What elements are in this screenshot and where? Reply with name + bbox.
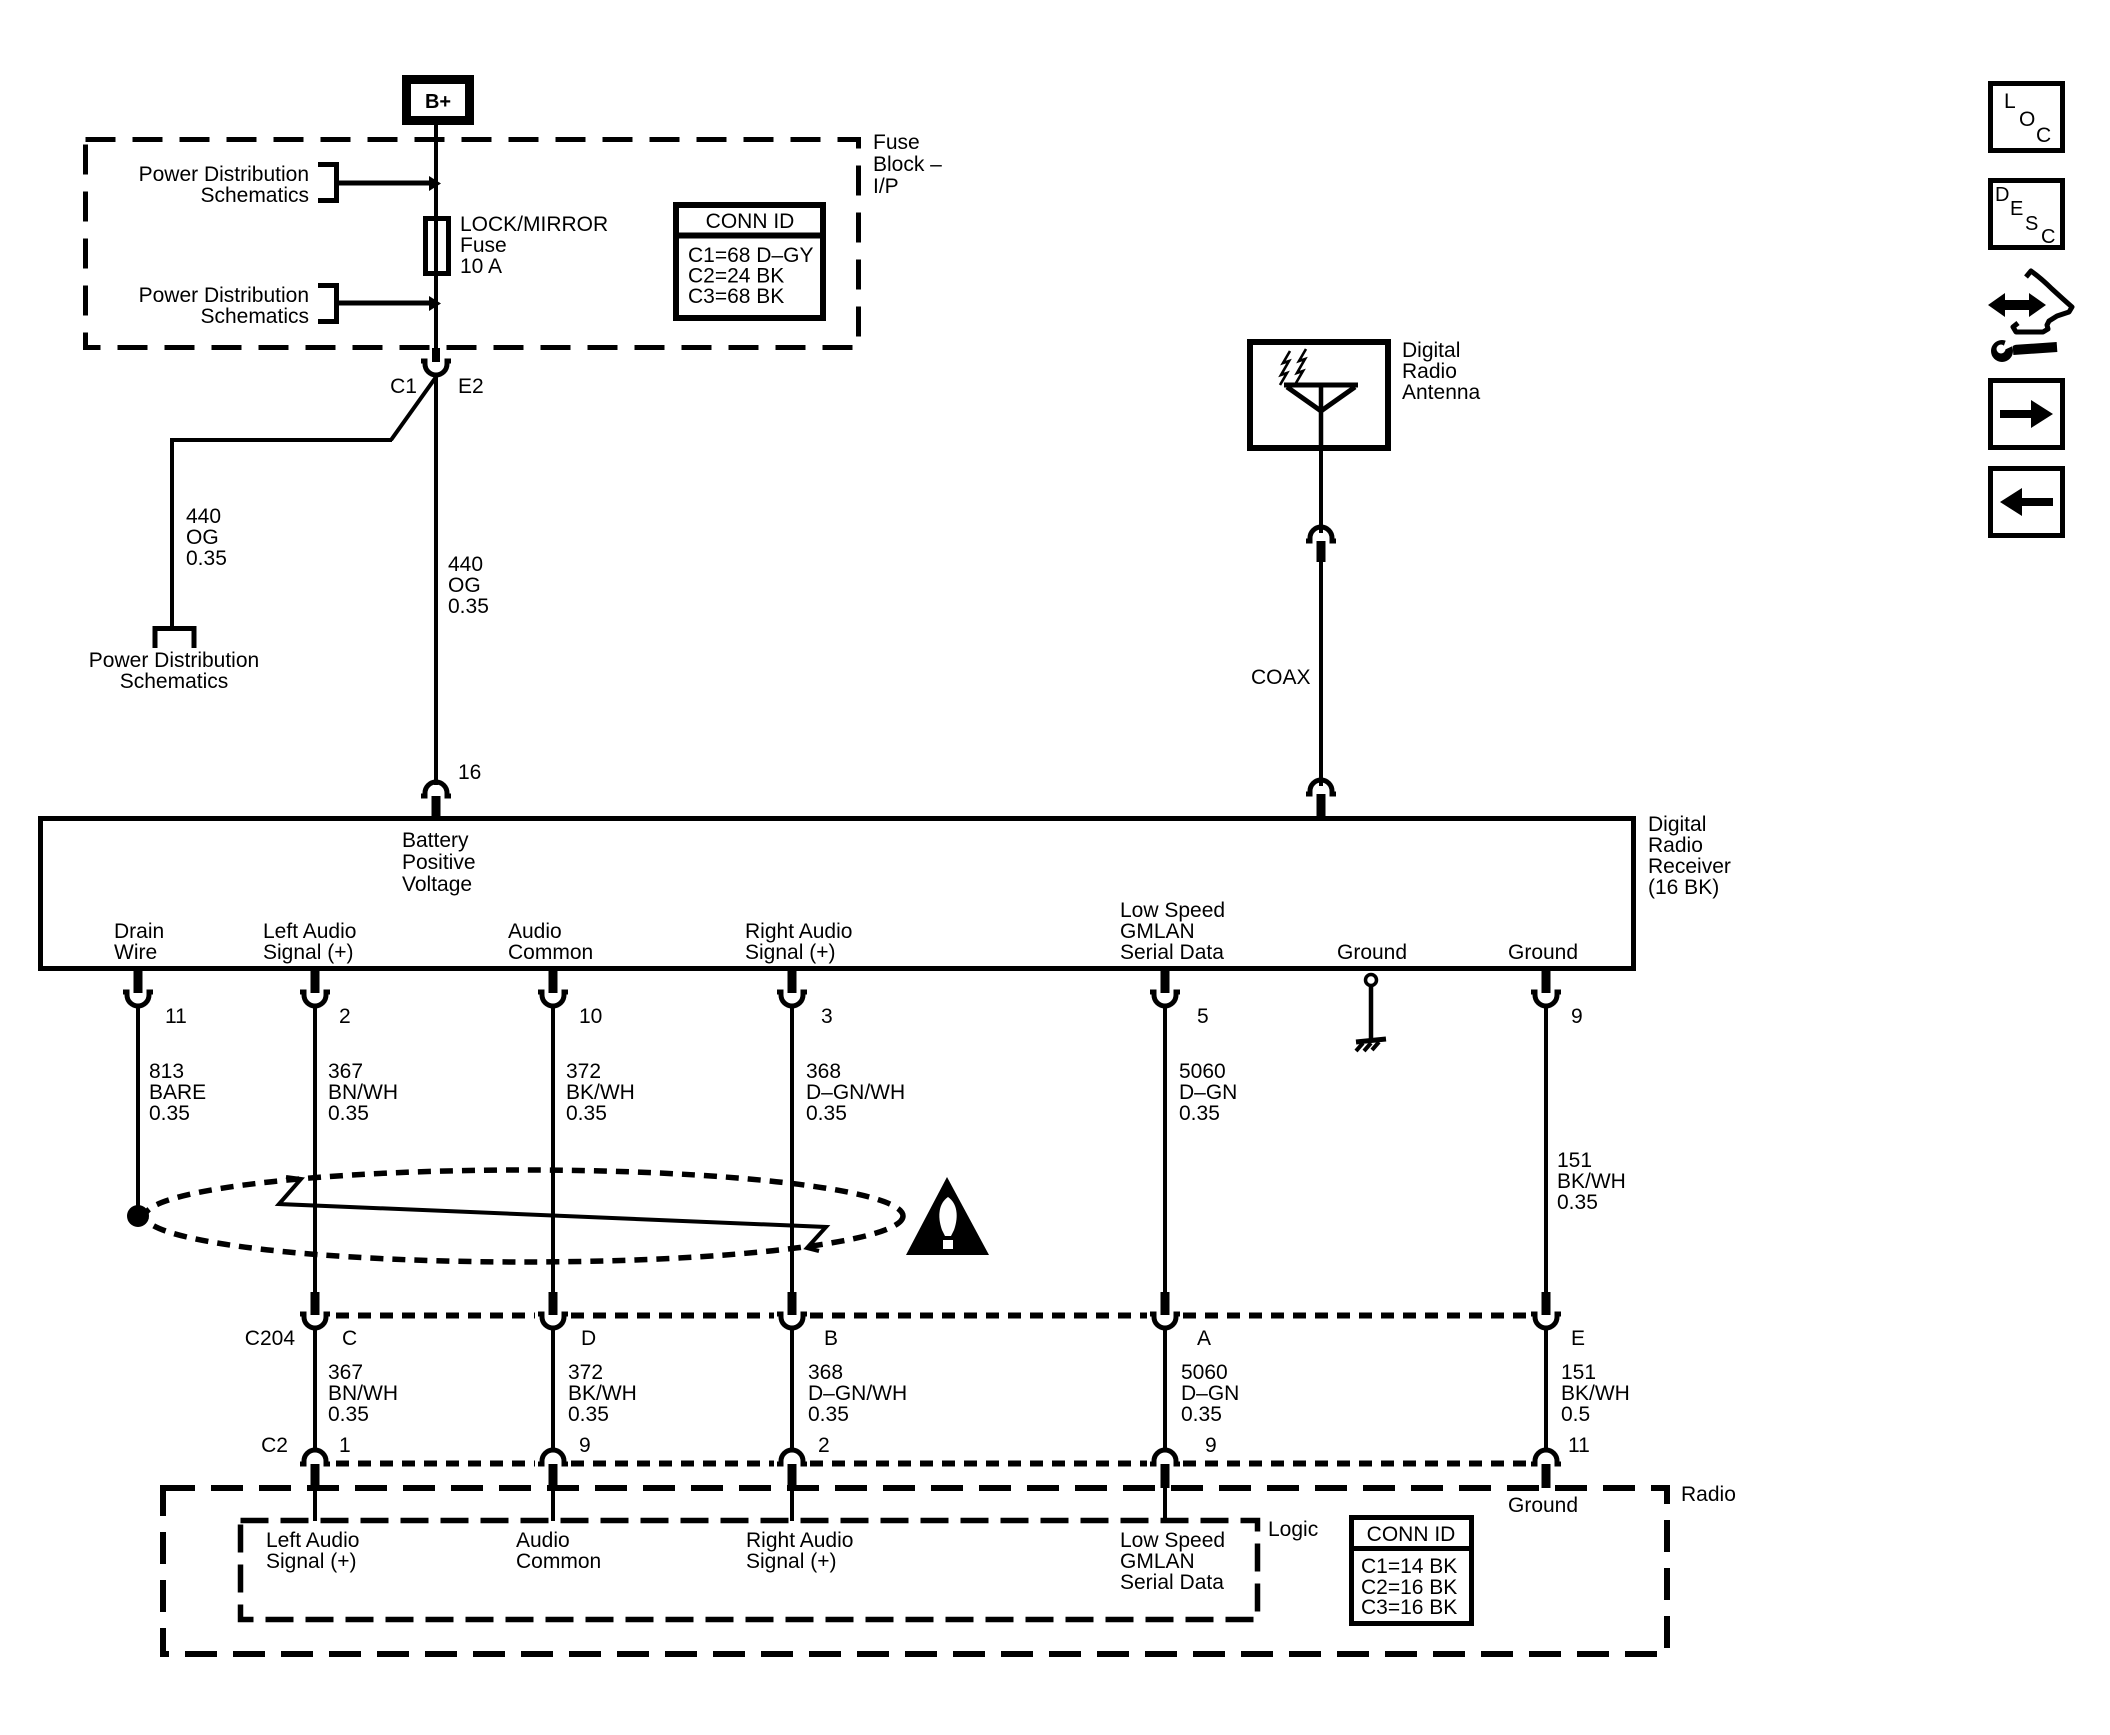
wire B+ to fuse	[434, 125, 438, 362]
wire 368 lower	[790, 1328, 794, 1450]
wire main vertical 440 OG	[434, 377, 438, 785]
wire diagonal branch	[391, 377, 436, 440]
antenna waves (lightning marks)	[1280, 349, 1306, 385]
wire to radio pin 9	[551, 1488, 555, 1521]
digital radio antenna box	[1250, 342, 1388, 448]
svg-text:CONN ID: CONN ID	[706, 210, 795, 233]
svg-text:Radio: Radio	[1681, 1483, 1736, 1506]
svg-text:Signal (+): Signal (+)	[263, 941, 353, 964]
label Audio Common (radio)	[516, 1529, 601, 1573]
connector C2 pin 2 (dome + pin)	[777, 1450, 807, 1488]
wire 151 lower	[1544, 1328, 1548, 1450]
icon flexible/tools	[1988, 271, 2072, 362]
label Battery Positive Voltage	[402, 829, 476, 896]
wire fuse to connector C1	[434, 276, 438, 362]
receiver pin 5 (pin + cup)	[1150, 971, 1180, 1006]
wire 372 upper	[551, 1006, 555, 1293]
svg-text:9: 9	[1205, 1434, 1217, 1457]
svg-text:Fuse: Fuse	[460, 234, 507, 257]
connector C204 pin E (pin + cup)	[1531, 1292, 1561, 1328]
svg-text:368: 368	[806, 1060, 841, 1083]
svg-text:0.35: 0.35	[1179, 1102, 1220, 1125]
label Digital Radio Receiver (16 BK)	[1648, 813, 1731, 899]
label Right Audio Signal (+) (radio)	[746, 1529, 853, 1573]
svg-text:0.5: 0.5	[1561, 1403, 1590, 1426]
wire 151 upper	[1544, 1006, 1548, 1293]
svg-text:Antenna: Antenna	[1402, 381, 1481, 404]
svg-text:10 A: 10 A	[460, 255, 502, 278]
label Digital Radio Antenna	[1402, 339, 1481, 404]
svg-text:L: L	[2004, 90, 2016, 113]
svg-text:D–GN/WH: D–GN/WH	[806, 1081, 905, 1104]
wire tap (second)	[336, 296, 441, 311]
coax connector (lower dome + pin)	[1306, 780, 1336, 818]
svg-text:9: 9	[1571, 1005, 1583, 1028]
svg-text:Battery: Battery	[402, 829, 469, 852]
fuse LOCK/MIRROR 10A	[426, 219, 449, 274]
twisted pair line	[279, 1177, 826, 1251]
svg-text:D: D	[581, 1327, 596, 1350]
ground symbol	[1356, 975, 1386, 1052]
digital radio receiver box	[41, 819, 1634, 969]
svg-text:Power Distribution: Power Distribution	[89, 649, 259, 672]
svg-text:Schematics: Schematics	[200, 305, 309, 328]
label LOCK/MIRROR Fuse 10 A	[460, 213, 608, 278]
svg-text:Common: Common	[508, 941, 593, 964]
wire 5060 lower	[1163, 1328, 1167, 1450]
wire tap (top)	[336, 176, 441, 191]
svg-text:Block –: Block –	[873, 153, 942, 176]
svg-text:10: 10	[579, 1005, 602, 1028]
svg-text:D–GN/WH: D–GN/WH	[808, 1382, 907, 1405]
receiver pin 3 (pin + cup)	[777, 971, 807, 1006]
svg-text:16: 16	[458, 761, 481, 784]
svg-text:C3=16 BK: C3=16 BK	[1361, 1596, 1457, 1619]
svg-text:Wire: Wire	[114, 941, 157, 964]
svg-text:11: 11	[165, 1005, 187, 1028]
wire 5060 upper	[1163, 1006, 1167, 1293]
svg-text:0.35: 0.35	[566, 1102, 607, 1125]
icon arrow left box	[1991, 469, 2063, 536]
connector row C204 (dashed line)	[336, 1313, 1528, 1319]
receiver pin 10 (pin + cup)	[538, 971, 568, 1006]
svg-text:Low Speed: Low Speed	[1120, 899, 1225, 922]
coax connector (upper dome + pin)	[1306, 527, 1336, 562]
label Left Audio Signal (+)	[263, 920, 356, 964]
connector C204 pin C (pin + cup)	[300, 1292, 330, 1328]
svg-text:440: 440	[448, 553, 483, 576]
svg-text:Common: Common	[516, 1550, 601, 1573]
svg-text:Voltage: Voltage	[402, 873, 472, 896]
svg-text:COAX: COAX	[1251, 666, 1311, 689]
shield ellipse (dashed)	[145, 1170, 903, 1262]
svg-text:C204: C204	[245, 1327, 296, 1350]
connector C2 pin 11 (dome + pin)	[1531, 1450, 1561, 1488]
connector row C2 (dashed line)	[336, 1461, 1528, 1467]
label 368 D-GN/WH 0.35 (upper)	[806, 1060, 905, 1125]
svg-text:Ground: Ground	[1508, 1494, 1578, 1517]
svg-text:368: 368	[808, 1361, 843, 1384]
label Fuse Block - I/P	[873, 131, 942, 198]
svg-text:372: 372	[566, 1060, 601, 1083]
label 372 BK/WH 0.35 (upper)	[566, 1060, 635, 1125]
wire to radio pin 2	[790, 1488, 794, 1521]
svg-text:C3=68 BK: C3=68 BK	[688, 285, 784, 308]
svg-text:OG: OG	[186, 526, 219, 549]
svg-text:813: 813	[149, 1060, 184, 1083]
svg-text:Serial Data: Serial Data	[1120, 941, 1224, 964]
svg-text:0.35: 0.35	[328, 1102, 369, 1125]
connector C204 pin D (pin + cup)	[538, 1292, 568, 1328]
svg-text:E2: E2	[458, 375, 484, 398]
svg-text:B+: B+	[425, 91, 451, 113]
svg-text:Receiver: Receiver	[1648, 855, 1731, 878]
svg-text:0.35: 0.35	[448, 595, 489, 618]
label Left Audio Signal (+) (radio)	[266, 1529, 359, 1573]
radio dashed box	[163, 1488, 1667, 1654]
coax wire	[1319, 562, 1323, 786]
label Power Distribution Schematics (bottom)	[89, 649, 259, 693]
label 367 BN/WH 0.35 (upper)	[328, 1060, 398, 1125]
svg-text:Schematics: Schematics	[120, 670, 229, 693]
label 5060 D-GN 0.35 (upper)	[1179, 1060, 1237, 1125]
svg-text:C: C	[342, 1327, 357, 1350]
svg-text:Audio: Audio	[508, 920, 562, 943]
receiver pin 9 (pin + cup)	[1531, 971, 1561, 1006]
wire 367 lower	[313, 1328, 317, 1450]
svg-text:GMLAN: GMLAN	[1120, 1550, 1195, 1573]
svg-text:3: 3	[821, 1005, 833, 1028]
antenna symbol	[1284, 385, 1358, 448]
connector C2 pin 9 GMLAN (dome + pin)	[1150, 1450, 1180, 1488]
CONN ID table (fuse block)	[673, 205, 826, 318]
label Low Speed GMLAN Serial Data	[1120, 899, 1225, 964]
fuse block I/P dashed box	[86, 140, 859, 348]
label 151 BK/WH 0.35 (upper)	[1557, 1149, 1626, 1214]
receiver pin 2 (pin + cup)	[300, 971, 330, 1006]
svg-text:Schematics: Schematics	[200, 184, 309, 207]
label Power Distribution Schematics (top)	[139, 163, 309, 207]
label Low Speed GMLAN Serial Data (radio)	[1120, 1529, 1225, 1594]
svg-text:367: 367	[328, 1361, 363, 1384]
icon arrow right box	[1991, 381, 2063, 448]
svg-text:Ground: Ground	[1337, 941, 1407, 964]
svg-text:0.35: 0.35	[186, 547, 227, 570]
svg-text:0.35: 0.35	[568, 1403, 609, 1426]
svg-text:S: S	[2025, 213, 2038, 235]
connector C2 pin 1 (dome + pin)	[300, 1450, 330, 1488]
label Power Distribution Schematics (second)	[139, 284, 309, 328]
label 372 BK/WH 0.35 (lower)	[568, 1361, 637, 1426]
svg-text:372: 372	[568, 1361, 603, 1384]
label 151 BK/WH 0.5 (lower)	[1561, 1361, 1630, 1426]
svg-text:Left Audio: Left Audio	[263, 920, 356, 943]
wire horizontal branch	[170, 438, 392, 442]
svg-text:(16 BK): (16 BK)	[1648, 876, 1719, 899]
connector C1 pin E2 (cup)	[421, 348, 451, 375]
junction dot drain	[127, 1205, 149, 1227]
svg-text:Fuse: Fuse	[873, 131, 920, 154]
svg-text:Radio: Radio	[1402, 360, 1457, 383]
power feed B+	[407, 80, 470, 121]
svg-text:Digital: Digital	[1648, 813, 1706, 836]
svg-text:11: 11	[1568, 1434, 1590, 1457]
logic dashed box	[241, 1521, 1258, 1620]
svg-text:E: E	[2010, 198, 2023, 220]
off-page bracket (second)	[318, 286, 337, 322]
svg-text:B: B	[824, 1327, 838, 1350]
svg-text:2: 2	[818, 1434, 830, 1457]
svg-text:C1=14 BK: C1=14 BK	[1361, 1555, 1457, 1578]
wire drain 813	[136, 1006, 140, 1212]
svg-text:Right Audio: Right Audio	[746, 1529, 853, 1552]
wire to radio pin 1	[313, 1488, 317, 1521]
svg-text:BK/WH: BK/WH	[1561, 1382, 1630, 1405]
svg-text:CONN ID: CONN ID	[1367, 1523, 1456, 1546]
CONN ID table (radio)	[1349, 1518, 1474, 1624]
svg-text:BK/WH: BK/WH	[566, 1081, 635, 1104]
svg-text:5: 5	[1197, 1005, 1209, 1028]
svg-text:Serial Data: Serial Data	[1120, 1571, 1224, 1594]
svg-text:0.35: 0.35	[328, 1403, 369, 1426]
icon LOC box	[1991, 84, 2063, 151]
label Audio Common	[508, 920, 593, 964]
svg-text:9: 9	[579, 1434, 591, 1457]
svg-text:BK/WH: BK/WH	[568, 1382, 637, 1405]
connector C204 pin B (pin + cup)	[777, 1292, 807, 1328]
coax wire antenna to connector	[1319, 448, 1323, 533]
svg-text:LOCK/MIRROR: LOCK/MIRROR	[460, 213, 608, 236]
off-page bracket (top)	[318, 165, 337, 201]
svg-text:1: 1	[339, 1434, 351, 1457]
wire vertical branch left	[170, 438, 174, 626]
label 440 OG 0.35 (left)	[186, 505, 227, 570]
svg-text:Right Audio: Right Audio	[745, 920, 852, 943]
label 813 BARE 0.35	[149, 1060, 206, 1125]
svg-text:0.35: 0.35	[1557, 1191, 1598, 1214]
svg-text:Audio: Audio	[516, 1529, 570, 1552]
svg-text:Signal (+): Signal (+)	[266, 1550, 356, 1573]
svg-text:I/P: I/P	[873, 175, 899, 198]
svg-text:Power Distribution: Power Distribution	[139, 163, 309, 186]
svg-text:Ground: Ground	[1508, 941, 1578, 964]
wire to radio GMLAN	[1163, 1488, 1167, 1521]
icon DESC box	[1991, 181, 2063, 249]
svg-text:Signal (+): Signal (+)	[745, 941, 835, 964]
svg-text:E: E	[1571, 1327, 1585, 1350]
wire 367 upper	[313, 1006, 317, 1293]
svg-text:440: 440	[186, 505, 221, 528]
svg-text:151: 151	[1561, 1361, 1596, 1384]
svg-text:Left Audio: Left Audio	[266, 1529, 359, 1552]
svg-text:C2: C2	[261, 1434, 288, 1457]
svg-text:2: 2	[339, 1005, 351, 1028]
connector C204 pin A (pin + cup)	[1150, 1292, 1180, 1328]
svg-text:BK/WH: BK/WH	[1557, 1170, 1626, 1193]
label Right Audio Signal (+)	[745, 920, 852, 964]
label Drain Wire	[114, 920, 164, 964]
connector C2 pin 9 (dome + pin)	[538, 1450, 568, 1488]
svg-text:Drain: Drain	[114, 920, 164, 943]
svg-text:5060: 5060	[1179, 1060, 1226, 1083]
label 5060 D-GN 0.35 (lower)	[1181, 1361, 1239, 1426]
svg-text:Signal (+): Signal (+)	[746, 1550, 836, 1573]
label 368 D-GN/WH 0.35 (lower)	[808, 1361, 907, 1426]
svg-text:Radio: Radio	[1648, 834, 1703, 857]
svg-text:0.35: 0.35	[1181, 1403, 1222, 1426]
warning triangle	[906, 1177, 989, 1255]
svg-text:Positive: Positive	[402, 851, 476, 874]
svg-text:Logic: Logic	[1268, 1518, 1318, 1541]
svg-text:D: D	[1995, 184, 2009, 206]
svg-text:D–GN: D–GN	[1181, 1382, 1239, 1405]
svg-text:5060: 5060	[1181, 1361, 1228, 1384]
svg-text:BN/WH: BN/WH	[328, 1081, 398, 1104]
svg-text:0.35: 0.35	[806, 1102, 847, 1125]
connector pin 16 (dome + pin)	[421, 782, 451, 818]
label 367 BN/WH 0.35 (lower)	[328, 1361, 398, 1426]
svg-text:C: C	[2041, 226, 2055, 248]
svg-text:0.35: 0.35	[149, 1102, 190, 1125]
svg-text:Digital: Digital	[1402, 339, 1460, 362]
svg-text:BN/WH: BN/WH	[328, 1382, 398, 1405]
svg-text:O: O	[2019, 108, 2035, 131]
svg-text:0.35: 0.35	[808, 1403, 849, 1426]
wire 368 upper	[790, 1006, 794, 1293]
label 440 OG 0.35 (main)	[448, 553, 489, 618]
svg-text:D–GN: D–GN	[1179, 1081, 1237, 1104]
svg-text:151: 151	[1557, 1149, 1592, 1172]
svg-text:GMLAN: GMLAN	[1120, 920, 1195, 943]
off-page bracket (bottom left)	[155, 629, 194, 649]
svg-text:Low Speed: Low Speed	[1120, 1529, 1225, 1552]
svg-text:367: 367	[328, 1060, 363, 1083]
svg-text:C: C	[2036, 124, 2051, 147]
svg-text:BARE: BARE	[149, 1081, 206, 1104]
receiver pin 11 (pin + cup)	[123, 971, 153, 1006]
svg-text:A: A	[1197, 1327, 1211, 1350]
svg-text:OG: OG	[448, 574, 481, 597]
wire 372 lower	[551, 1328, 555, 1450]
svg-text:Power Distribution: Power Distribution	[139, 284, 309, 307]
svg-text:C1: C1	[390, 375, 417, 398]
